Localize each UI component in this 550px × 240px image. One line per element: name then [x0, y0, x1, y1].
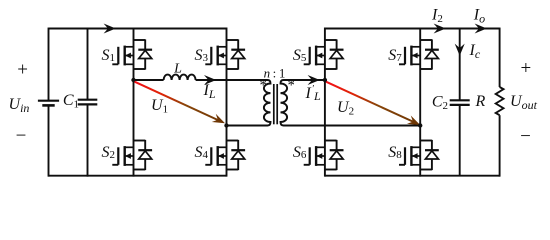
- wire resistor R vertical bottom: [499, 115, 501, 176]
- wire leg S1 S2: [133, 28, 135, 177]
- arrow current Ic: [455, 44, 465, 56]
- wire bottom rail left bridge: [49, 175, 227, 177]
- arrow current I2 on top rail: [434, 24, 446, 34]
- transistor S1: [102, 39, 153, 69]
- transistor S7: [388, 39, 439, 69]
- svg-text:+: +: [520, 58, 531, 79]
- svg-text:I: I: [305, 85, 312, 102]
- wire midpoint B to transformer primary bottom: [227, 125, 268, 127]
- battery source Uin: [38, 101, 59, 106]
- svg-text:+: +: [17, 60, 28, 81]
- arrow current IL-prime: [308, 75, 320, 85]
- arrow voltage U1: [135, 82, 225, 124]
- wire leg S3 S4: [226, 28, 228, 177]
- arrow input current on top rail: [104, 24, 116, 34]
- transformer core: [273, 84, 275, 124]
- svg-text:n : 1: n : 1: [264, 66, 286, 81]
- wire leg S5 S6: [324, 28, 326, 177]
- transformer primary winding: [264, 80, 271, 126]
- svg-text:R: R: [475, 93, 486, 110]
- node C bridge2 midpoint S5-S6: [323, 78, 327, 82]
- transistor S4: [195, 140, 246, 170]
- transistor S6: [293, 140, 344, 170]
- transistor S2: [102, 140, 153, 170]
- wire transformer secondary top to midpoint C: [284, 79, 325, 81]
- wire capacitor C2 vertical top: [459, 29, 461, 101]
- capacitor C1: [78, 100, 98, 105]
- transistor S5: [293, 39, 344, 69]
- wire inductor to transformer primary: [196, 79, 268, 81]
- wire transformer secondary bottom to midpoint D: [284, 125, 421, 127]
- transformer secondary winding: [281, 80, 288, 126]
- wire capacitor C1 vertical top: [87, 28, 89, 100]
- svg-text:L: L: [313, 89, 321, 103]
- wire capacitor C1 vertical bottom: [87, 104, 89, 176]
- node A bridge1 midpoint S1-S2: [131, 78, 135, 82]
- arrow voltage U2: [326, 82, 420, 125]
- wire input source vertical bottom: [48, 105, 50, 176]
- wire top rail right bridge: [325, 28, 500, 30]
- wire midpoint A to inductor: [134, 79, 164, 81]
- transistor S8: [388, 140, 439, 170]
- svg-text:*: *: [259, 78, 267, 94]
- wire leg S7 S8: [419, 28, 421, 177]
- wire bottom rail right bridge: [325, 175, 500, 177]
- inductor L: [164, 75, 196, 80]
- arrow current Io on top rail: [475, 24, 487, 34]
- wire top rail left bridge: [49, 28, 227, 30]
- capacitor C2: [450, 100, 470, 105]
- svg-text:−: −: [520, 126, 531, 147]
- wire input source vertical top: [48, 28, 50, 100]
- arrow current IL: [204, 75, 216, 85]
- wire resistor R vertical top: [499, 28, 501, 87]
- wire capacitor C2 vertical bottom: [459, 105, 461, 176]
- node B bridge1 midpoint S3-S4: [224, 123, 228, 127]
- svg-text:−: −: [16, 126, 27, 147]
- svg-text:L: L: [173, 62, 182, 77]
- node D bridge2 midpoint S7-S8: [418, 123, 422, 127]
- transistor S3: [195, 39, 246, 69]
- resistor R: [496, 87, 504, 115]
